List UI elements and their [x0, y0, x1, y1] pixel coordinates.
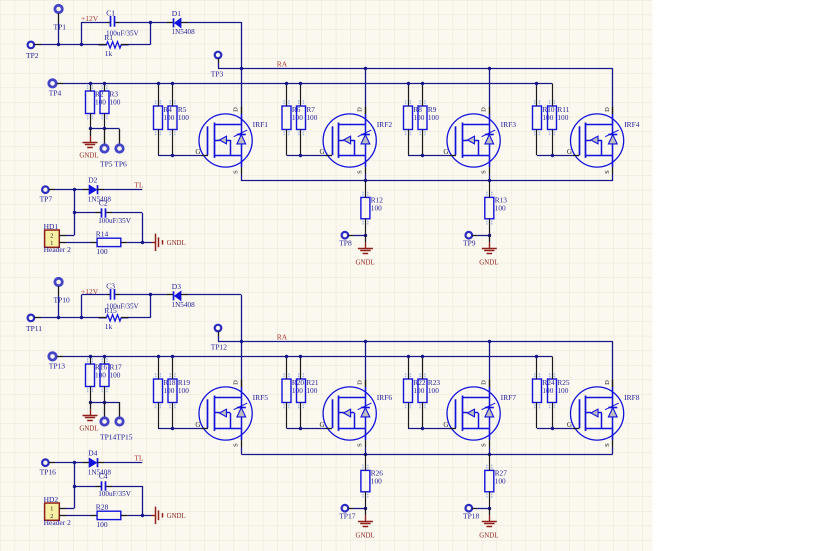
- svg-text:TP10: TP10: [54, 296, 71, 305]
- ground GNDL: [152, 507, 186, 524]
- wire: [66, 235, 74, 237]
- junction: [364, 453, 367, 456]
- diode D2: [83, 176, 111, 204]
- wire: [74, 463, 76, 509]
- svg-text:100: 100: [428, 113, 439, 122]
- net label TL: [134, 181, 144, 190]
- net RA wire: [241, 341, 613, 343]
- resistor R22: [404, 356, 426, 428]
- resistor R8: [404, 83, 425, 155]
- net label RA: [277, 333, 288, 342]
- junction: [285, 82, 288, 85]
- wire: [55, 189, 83, 191]
- resistor R5: [168, 83, 189, 155]
- wire: [142, 486, 144, 515]
- svg-text:100uF/35V: 100uF/35V: [98, 490, 132, 498]
- wire: [127, 242, 151, 244]
- resistor R14: [91, 229, 128, 256]
- junction: [535, 355, 538, 358]
- wire: [41, 23, 99, 45]
- ground GNDL: [356, 235, 375, 266]
- gate wire: [408, 428, 449, 430]
- svg-text:TP1: TP1: [54, 23, 67, 32]
- svg-text:1: 1: [50, 240, 53, 247]
- svg-text:TP13: TP13: [49, 362, 66, 371]
- junction: [421, 355, 424, 358]
- svg-text:D1: D1: [172, 9, 181, 18]
- svg-text:TP14TP15: TP14TP15: [100, 433, 133, 442]
- svg-text:S: S: [232, 170, 239, 174]
- svg-text:S: S: [480, 170, 487, 174]
- mosfet IRF7: [443, 380, 516, 447]
- svg-text:100: 100: [495, 204, 506, 213]
- junction: [149, 293, 152, 296]
- svg-text:1: 1: [50, 506, 53, 513]
- mosfet IRF4: [567, 107, 640, 174]
- junction: [171, 82, 174, 85]
- wire: [74, 190, 76, 236]
- junction: [488, 67, 491, 70]
- ground GNDL: [479, 235, 498, 266]
- junction: [407, 82, 410, 85]
- wire: [142, 213, 144, 242]
- svg-text:D: D: [480, 380, 487, 385]
- svg-text:S: S: [356, 443, 363, 447]
- junction: [299, 355, 302, 358]
- junction: [364, 340, 367, 343]
- junction: [551, 154, 554, 157]
- svg-text:TP12: TP12: [211, 342, 228, 351]
- svg-text:TP7: TP7: [40, 195, 53, 204]
- junction: [73, 188, 76, 191]
- svg-text:D4: D4: [88, 449, 97, 458]
- svg-text:TP2: TP2: [26, 51, 39, 60]
- junction: [421, 82, 424, 85]
- svg-text:S: S: [356, 170, 363, 174]
- wire: [127, 515, 151, 517]
- svg-text:100: 100: [292, 113, 303, 122]
- test point TP2: [26, 42, 41, 60]
- wire: [218, 336, 241, 342]
- ground GNDL: [79, 402, 98, 433]
- ground GNDL: [356, 508, 375, 539]
- junction: [89, 355, 92, 358]
- junction: [157, 355, 160, 358]
- svg-text:100: 100: [163, 386, 174, 395]
- svg-text:G: G: [195, 148, 200, 156]
- svg-text:+12V: +12V: [81, 14, 99, 23]
- svg-text:1k: 1k: [105, 322, 113, 331]
- svg-text:R15: R15: [104, 306, 117, 315]
- svg-text:100: 100: [557, 386, 568, 395]
- svg-text:TP4: TP4: [49, 89, 62, 98]
- source wire: [365, 447, 367, 454]
- resistor R11: [548, 83, 570, 155]
- junction: [103, 127, 106, 130]
- svg-text:GNDL: GNDL: [356, 259, 375, 266]
- ground GNDL: [79, 129, 98, 160]
- resistor R10: [533, 83, 555, 155]
- svg-text:1k: 1k: [105, 49, 113, 58]
- svg-text:G: G: [443, 148, 448, 156]
- net label RA: [277, 60, 288, 69]
- wire: [612, 68, 614, 114]
- source rail wire: [241, 454, 613, 456]
- wire: [188, 22, 242, 107]
- wire: [612, 341, 614, 387]
- svg-text:GNDL: GNDL: [356, 532, 375, 539]
- wire: [55, 462, 83, 464]
- test point TP9: [463, 232, 489, 248]
- test point TP12: [211, 325, 228, 352]
- svg-text:S: S: [232, 443, 239, 447]
- mosfet IRF8: [567, 380, 640, 447]
- wire: [129, 22, 151, 45]
- svg-text:D: D: [604, 380, 611, 385]
- svg-text:100: 100: [306, 113, 317, 122]
- svg-text:D3: D3: [172, 282, 181, 291]
- resistor R28: [91, 502, 128, 529]
- junction: [73, 461, 76, 464]
- svg-text:RA: RA: [277, 60, 288, 69]
- wire: [188, 295, 242, 380]
- mosfet IRF2: [320, 107, 393, 174]
- gate wire: [287, 155, 326, 157]
- resistor R19: [168, 356, 190, 428]
- junction: [364, 179, 367, 182]
- svg-text:TP9: TP9: [463, 239, 476, 248]
- mosfet IRF6: [320, 380, 393, 447]
- svg-text:Header 2: Header 2: [44, 518, 72, 527]
- source wire: [612, 447, 614, 454]
- wire: [81, 295, 83, 318]
- source wire: [241, 174, 243, 181]
- resistor R6: [282, 83, 303, 155]
- junction: [141, 514, 144, 517]
- svg-text:D: D: [356, 107, 363, 112]
- svg-text:100: 100: [557, 113, 568, 122]
- ground GNDL: [152, 234, 186, 251]
- net label TL: [134, 454, 144, 463]
- junction: [103, 401, 106, 404]
- wire: [365, 68, 367, 114]
- svg-text:100: 100: [292, 386, 303, 395]
- svg-text:IRF6: IRF6: [377, 393, 393, 402]
- junction: [535, 82, 538, 85]
- svg-text:S: S: [604, 170, 611, 174]
- test point TP16: [40, 459, 57, 476]
- wire: [90, 128, 120, 130]
- net label +12V: [81, 287, 99, 296]
- svg-text:100: 100: [413, 386, 424, 395]
- junction: [171, 154, 174, 157]
- svg-text:GNDL: GNDL: [79, 153, 98, 160]
- resistor R13: [485, 181, 507, 235]
- svg-text:G: G: [567, 148, 572, 156]
- svg-text:GNDL: GNDL: [167, 513, 186, 520]
- resistor R27: [485, 454, 507, 508]
- svg-text:HD2: HD2: [44, 495, 59, 504]
- diode D1: [166, 9, 195, 36]
- wire: [104, 189, 142, 191]
- svg-text:100: 100: [96, 520, 108, 529]
- gate wire: [158, 428, 201, 430]
- svg-text:1N5408: 1N5408: [172, 301, 196, 309]
- source wire: [612, 174, 614, 181]
- svg-text:100: 100: [163, 113, 174, 122]
- junction: [364, 507, 367, 510]
- junction: [488, 179, 491, 182]
- resistor R26: [361, 454, 383, 508]
- test point TP15: [100, 402, 133, 442]
- wire: [66, 515, 91, 517]
- svg-text:C2: C2: [99, 198, 108, 207]
- svg-text:IRF8: IRF8: [624, 393, 640, 402]
- svg-text:D: D: [232, 107, 239, 112]
- svg-text:HD1: HD1: [44, 222, 59, 231]
- header HD2: [44, 495, 72, 527]
- gate wire: [287, 428, 326, 430]
- svg-text:100: 100: [428, 386, 439, 395]
- header HD1: [44, 222, 72, 254]
- svg-text:100: 100: [178, 113, 189, 122]
- junction: [171, 427, 174, 430]
- junction: [89, 127, 92, 130]
- test point TP1: [54, 5, 67, 31]
- svg-text:R1: R1: [104, 33, 113, 42]
- svg-text:100: 100: [306, 386, 317, 395]
- junction: [299, 154, 302, 157]
- capacitor C1: [106, 9, 140, 38]
- diode D3: [166, 282, 195, 309]
- svg-text:G: G: [195, 421, 200, 429]
- svg-text:IRF3: IRF3: [501, 120, 517, 129]
- svg-text:R14: R14: [96, 229, 109, 238]
- junction: [488, 234, 491, 237]
- svg-text:C1: C1: [106, 9, 115, 18]
- svg-text:IRF5: IRF5: [253, 393, 269, 402]
- junction: [57, 316, 60, 319]
- gate wire: [158, 155, 201, 157]
- svg-text:TL: TL: [134, 181, 144, 190]
- wire: [82, 22, 111, 24]
- wire: [129, 295, 151, 318]
- resistor R25: [548, 356, 570, 428]
- svg-text:100uF/35V: 100uF/35V: [98, 217, 132, 225]
- svg-text:2: 2: [50, 513, 53, 520]
- junction: [488, 340, 491, 343]
- capacitor C3: [106, 282, 140, 311]
- gate bus wire: [63, 83, 552, 85]
- test point TP7: [40, 186, 55, 203]
- resistor R9: [418, 83, 439, 155]
- resistor R20: [282, 356, 304, 428]
- ground GNDL: [479, 508, 498, 539]
- test point TP18: [463, 505, 489, 521]
- svg-text:1N5408: 1N5408: [172, 28, 196, 36]
- svg-text:TP18: TP18: [463, 512, 480, 521]
- test point TP13: [49, 353, 66, 371]
- svg-text:100: 100: [371, 477, 382, 486]
- source wire: [489, 174, 491, 181]
- junction: [488, 507, 491, 510]
- svg-text:100: 100: [110, 98, 121, 107]
- svg-text:RA: RA: [277, 333, 288, 342]
- source wire: [489, 447, 491, 454]
- junction: [103, 355, 106, 358]
- svg-text:TL: TL: [134, 454, 144, 463]
- svg-text:G: G: [443, 421, 448, 429]
- test point TP8: [339, 232, 365, 248]
- gate bus wire: [63, 356, 552, 358]
- test point TP17: [339, 505, 365, 521]
- junction: [407, 355, 410, 358]
- test point TP3: [211, 52, 224, 79]
- wire: [82, 294, 111, 296]
- svg-text:D: D: [356, 380, 363, 385]
- svg-text:2: 2: [50, 233, 53, 240]
- resistor R17: [100, 356, 122, 402]
- junction: [171, 355, 174, 358]
- test point TP6: [100, 129, 127, 169]
- gate wire: [537, 155, 573, 157]
- junction: [421, 427, 424, 430]
- svg-text:IRF4: IRF4: [624, 120, 640, 129]
- wire: [90, 402, 120, 404]
- source wire: [365, 174, 367, 181]
- junction: [73, 485, 76, 488]
- wire: [115, 294, 166, 296]
- test point TP5: [101, 129, 108, 152]
- junction: [421, 154, 424, 157]
- test point TP11: [26, 315, 42, 333]
- svg-text:100: 100: [110, 371, 121, 380]
- wire: [66, 508, 74, 510]
- svg-text:100: 100: [413, 113, 424, 122]
- junction: [103, 82, 106, 85]
- junction: [240, 340, 243, 343]
- resistor R16: [86, 356, 108, 402]
- resistor R18: [154, 356, 176, 428]
- svg-text:C3: C3: [106, 282, 115, 291]
- junction: [240, 67, 243, 70]
- gate wire: [408, 155, 449, 157]
- resistor R4: [154, 83, 175, 155]
- wire: [489, 341, 491, 387]
- wire: [115, 22, 166, 24]
- svg-text:GNDL: GNDL: [479, 259, 498, 266]
- svg-text:C4: C4: [99, 471, 108, 480]
- svg-text:100: 100: [371, 204, 382, 213]
- svg-text:100: 100: [178, 386, 189, 395]
- wire: [41, 296, 99, 318]
- mosfet IRF5: [195, 380, 268, 447]
- svg-text:IRF2: IRF2: [377, 120, 393, 129]
- source wire: [241, 447, 243, 454]
- svg-text:TP17: TP17: [339, 512, 356, 521]
- junction: [551, 427, 554, 430]
- wire: [218, 63, 241, 69]
- svg-text:G: G: [320, 421, 325, 429]
- mosfet IRF1: [195, 107, 268, 174]
- capacitor C2: [74, 198, 142, 225]
- resistor R2: [86, 83, 107, 129]
- resistor R23: [418, 356, 440, 428]
- svg-text:TP11: TP11: [26, 324, 42, 333]
- svg-text:IRF1: IRF1: [253, 120, 269, 129]
- net RA wire: [241, 68, 613, 70]
- wire: [81, 22, 83, 45]
- junction: [141, 241, 144, 244]
- svg-text:TP3: TP3: [211, 69, 224, 78]
- svg-text:IRF7: IRF7: [501, 393, 517, 402]
- junction: [57, 43, 60, 46]
- test point TP4: [49, 80, 63, 98]
- wire: [241, 380, 243, 387]
- wire: [241, 107, 243, 114]
- svg-text:GNDL: GNDL: [79, 426, 98, 433]
- svg-text:G: G: [320, 148, 325, 156]
- svg-text:S: S: [604, 443, 611, 447]
- junction: [488, 453, 491, 456]
- junction: [364, 67, 367, 70]
- resistor R3: [100, 83, 121, 129]
- junction: [364, 234, 367, 237]
- junction: [89, 401, 92, 404]
- wire: [66, 242, 91, 244]
- svg-text:100: 100: [495, 477, 506, 486]
- junction: [80, 316, 83, 319]
- capacitor C4: [74, 471, 142, 498]
- wire: [104, 462, 142, 464]
- mosfet IRF3: [443, 107, 516, 174]
- svg-text:S: S: [480, 443, 487, 447]
- svg-text:G: G: [567, 421, 572, 429]
- junction: [149, 21, 152, 24]
- svg-text:TP16: TP16: [40, 468, 57, 477]
- test point TP10: [54, 278, 71, 304]
- svg-text:D: D: [232, 380, 239, 385]
- svg-text:TP8: TP8: [339, 239, 352, 248]
- svg-text:TP5 TP6: TP5 TP6: [100, 160, 127, 169]
- svg-text:D: D: [604, 107, 611, 112]
- svg-text:GNDL: GNDL: [167, 240, 186, 247]
- resistor R24: [533, 356, 555, 428]
- diode D4: [83, 449, 111, 477]
- junction: [157, 82, 160, 85]
- wire: [365, 341, 367, 387]
- resistor R7: [297, 83, 318, 155]
- resistor R1: [99, 33, 129, 58]
- resistor R15: [99, 306, 129, 331]
- svg-text:GNDL: GNDL: [479, 532, 498, 539]
- junction: [80, 43, 83, 46]
- net label +12V: [81, 14, 99, 23]
- svg-text:D2: D2: [88, 176, 97, 185]
- junction: [299, 427, 302, 430]
- svg-text:100: 100: [96, 247, 108, 256]
- junction: [285, 355, 288, 358]
- test point TP14: [101, 402, 108, 425]
- junction: [73, 211, 76, 214]
- svg-text:R28: R28: [96, 502, 109, 511]
- resistor R21: [297, 356, 319, 428]
- resistor R12: [361, 181, 383, 235]
- wire: [489, 68, 491, 114]
- junction: [299, 82, 302, 85]
- svg-text:Header 2: Header 2: [44, 245, 72, 254]
- source rail wire: [241, 180, 613, 182]
